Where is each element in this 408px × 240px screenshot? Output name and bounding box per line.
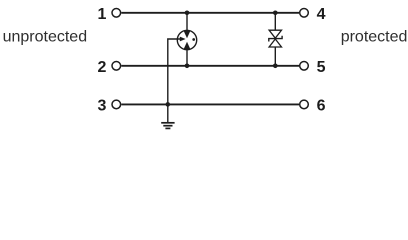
svg-text:1: 1 xyxy=(97,6,106,23)
terminal 2 (open circle) xyxy=(112,62,121,71)
wire: gas discharge tube bottom lead xyxy=(186,50,188,66)
terminal 4 (open circle) xyxy=(300,9,309,18)
wire: gas discharge tube top lead xyxy=(186,13,188,31)
svg-text:unprotected: unprotected xyxy=(3,29,88,46)
ground symbol: top bar xyxy=(161,122,174,124)
terminal 5 (open circle) xyxy=(300,62,309,71)
wire: suppressor diode bottom lead xyxy=(274,47,276,66)
svg-text:6: 6 xyxy=(317,98,326,115)
gas discharge tube F1: bottom electrode (filled triangle) xyxy=(184,42,191,49)
wire: line 3 from terminal 3 to terminal 6 xyxy=(121,103,299,105)
junction: line 2 / suppressor diode bottom xyxy=(273,64,278,69)
junction: line 1 / gas discharge tube top xyxy=(185,11,190,16)
junction: line 2 / gas discharge tube bottom xyxy=(185,64,190,69)
svg-text:3: 3 xyxy=(97,98,106,115)
gas discharge tube F1: top electrode (filled triangle) xyxy=(184,31,191,38)
junction: line 1 / suppressor diode top xyxy=(273,11,278,16)
gas discharge tube F1: side (ground) electrode arrowhead xyxy=(180,37,186,42)
wire: line 1 from terminal 1 to terminal 4 xyxy=(121,12,299,14)
wire: line 2 from terminal 2 to terminal 5 xyxy=(121,65,299,67)
wire: side electrode to earth (crosses line 2 without junction) xyxy=(168,39,181,122)
suppressor diode V1: bottom triangle (outline, pointing up) xyxy=(269,39,281,47)
wire: suppressor diode top lead xyxy=(274,13,276,30)
gas discharge tube F1: envelope circle xyxy=(177,30,196,49)
terminal 1 (open circle) xyxy=(112,9,121,18)
suppressor diode V1: top triangle (outline, pointing down) xyxy=(269,30,281,38)
svg-text:5: 5 xyxy=(317,59,326,76)
ground symbol: bottom bar xyxy=(165,127,170,129)
svg-text:protected: protected xyxy=(341,29,408,46)
terminal 6 (open circle) xyxy=(300,100,309,109)
suppressor diode V1: zener bar with bent ends xyxy=(269,36,282,42)
gas discharge tube F1: gas-filled indicator dot xyxy=(192,38,195,41)
junction: earth wire / line 3 xyxy=(166,102,171,107)
terminal 3 (open circle) xyxy=(112,100,121,109)
svg-text:2: 2 xyxy=(97,59,106,76)
svg-text:4: 4 xyxy=(317,6,326,23)
ground symbol: middle bar xyxy=(163,125,172,127)
